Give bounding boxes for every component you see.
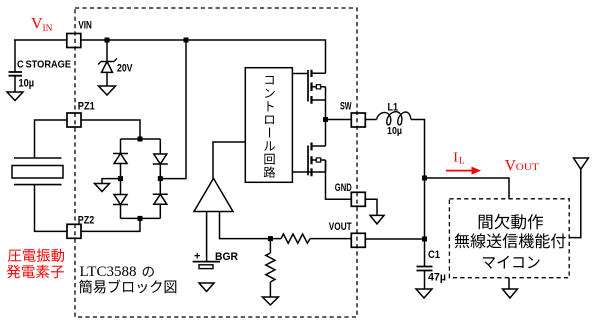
control block box: [245, 68, 292, 183]
ground zener: [99, 86, 116, 95]
wire SW to inductor: [365, 119, 377, 121]
svg-text:10µ: 10µ: [387, 126, 402, 137]
svg-text:C STORAGE: C STORAGE: [17, 59, 71, 71]
diode D4 bridge right-bottom: [153, 194, 168, 204]
svg-text:BGR: BGR: [215, 251, 238, 263]
diode D1 bridge left-top: [113, 154, 128, 164]
node VIN-rectifier junction: [184, 38, 189, 43]
node bridge bottom junction: [138, 216, 143, 221]
wire PZ2 to piezo: [35, 185, 68, 232]
wire op-amp noninv input: [206, 212, 208, 262]
svg-text:VIN: VIN: [78, 20, 92, 32]
resistor divider vertical: [266, 253, 275, 282]
svg-text:OUT: OUT: [516, 163, 539, 173]
wire PMOS source to SW: [325, 100, 327, 120]
svg-text:LTC3588: LTC3588: [80, 264, 137, 280]
node SW junction: [323, 117, 328, 122]
wire rectifier output rail: [160, 40, 186, 179]
wire bridge mid to ground: [102, 179, 121, 184]
label caption line2: [79, 280, 176, 294]
op-amp comparator: [194, 178, 233, 211]
zener diode 20V: [98, 59, 117, 65]
wire inductor to C1 rail: [411, 120, 425, 267]
wire C-storage branch: [14, 40, 16, 92]
ground bridge: [95, 184, 110, 192]
node divider junction: [268, 236, 273, 241]
wire VIN rail: [14, 40, 326, 73]
svg-text:47µ: 47µ: [428, 272, 446, 284]
wire bridge left branch: [120, 139, 122, 218]
wire bridge top: [121, 138, 161, 140]
wire NMOS gate-source: [292, 171, 325, 173]
diode D2 bridge left-bottom: [113, 195, 128, 205]
svg-text:PZ1: PZ1: [78, 101, 95, 113]
label mcu line1: [479, 214, 543, 230]
capacitor C1: [417, 267, 433, 271]
svg-text:V: V: [31, 16, 43, 33]
svg-text:I: I: [453, 151, 458, 166]
inductor L1: [377, 112, 411, 125]
capacitor C STORAGE: [9, 72, 23, 76]
wire PZ1 to piezo: [35, 120, 68, 158]
wire SW pin: [326, 119, 352, 121]
arrow IL red: [446, 170, 474, 172]
wire zener branch: [106, 40, 108, 86]
ground C1: [416, 289, 432, 298]
transistor Q2 NMOS: [307, 146, 309, 176]
node bridge right mid junction: [158, 176, 163, 181]
wire antenna: [569, 169, 581, 237]
wire NMOS source to GND pin: [326, 160, 352, 199]
label mcu line2: [455, 233, 566, 248]
pin SW: [351, 113, 365, 127]
wire PMOS gate: [292, 73, 308, 75]
node bridge left mid junction: [118, 176, 123, 181]
label mcu line3: [483, 256, 540, 269]
ground GND-pin: [370, 215, 384, 224]
pin VOUT: [351, 233, 365, 247]
antenna: [574, 158, 589, 169]
svg-text:C1: C1: [428, 249, 440, 261]
diode D3 bridge right-top: [153, 154, 168, 164]
wire PZ1 to bridge: [81, 120, 140, 139]
label caption no: [143, 267, 154, 277]
node bridge top junction: [138, 137, 143, 142]
ground BGR: [199, 283, 214, 292]
wire bridge bottom: [121, 217, 161, 219]
svg-text:+: +: [194, 251, 200, 263]
label control circuit vertical: [264, 76, 276, 178]
ground microcontroller: [503, 289, 518, 298]
piezo element: [14, 158, 62, 185]
svg-text:PZ2: PZ2: [78, 215, 95, 227]
svg-text:20V: 20V: [117, 63, 133, 75]
wire op-amp inv input to divider: [220, 212, 282, 239]
svg-text:10µ: 10µ: [19, 78, 35, 90]
svg-text:L1: L1: [388, 102, 399, 114]
ground C-storage: [7, 92, 23, 101]
pin PZ2: [67, 224, 81, 238]
wire resistor to VOUT pin: [310, 238, 352, 240]
node VIN-zener junction: [105, 38, 110, 43]
svg-text:GND: GND: [335, 182, 352, 194]
wire microcontroller to ground: [508, 278, 510, 289]
pin GND: [351, 192, 365, 206]
wire GND pin to ground: [365, 199, 377, 215]
wire NMOS drain to SW: [325, 120, 327, 147]
node Vout rail upper junction: [422, 176, 427, 181]
wire op-amp output to control block: [213, 142, 245, 178]
wire C1 lower: [424, 271, 426, 290]
battery BGR: [193, 261, 220, 263]
svg-text:SW: SW: [340, 101, 352, 113]
wire VOUT pin to rail: [365, 238, 425, 240]
microcontroller dashed box: [449, 199, 569, 278]
transistor Q1 PMOS: [307, 70, 309, 102]
LTC3588 IC dashed boundary: [75, 8, 357, 317]
wire divider to ground leg: [269, 239, 271, 297]
wire bridge right branch: [159, 139, 161, 218]
ground divider: [262, 297, 278, 305]
svg-text:IN: IN: [43, 24, 53, 34]
label piezo red line1: [8, 249, 64, 262]
node Vout rail lower junction: [422, 237, 427, 242]
label piezo red line2: [7, 265, 64, 279]
svg-text:L: L: [459, 155, 465, 165]
wire PZ2 to bridge: [81, 218, 140, 231]
wire Vout to microcontroller: [425, 178, 510, 199]
resistor feedback horizontal: [281, 234, 310, 243]
pin PZ1: [67, 113, 81, 127]
svg-text:VOUT: VOUT: [329, 221, 352, 233]
pin VIN: [67, 34, 81, 48]
